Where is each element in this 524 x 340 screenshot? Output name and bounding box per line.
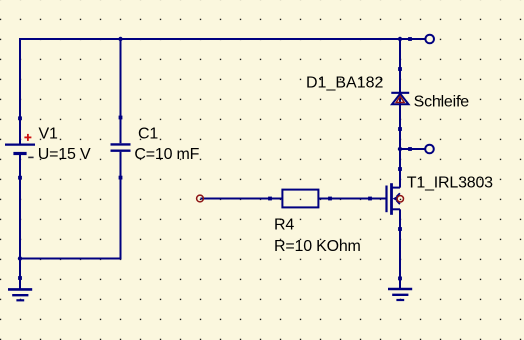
wire port stub middle: [400, 148, 426, 150]
svg-text:C=10 mF: C=10 mF: [134, 146, 199, 163]
node junction top C1: [118, 37, 122, 41]
svg-text:R=10 KOhm: R=10 KOhm: [274, 238, 361, 255]
wire C1 column lower: [120, 152, 122, 259]
wire right column lower: [399, 209, 401, 288]
ground right: [388, 277, 412, 301]
svg-text:Schleife: Schleife: [414, 94, 470, 111]
wire bottom rail: [19, 258, 122, 260]
wire R4 to gate: [319, 198, 387, 200]
node open terminal R4 left: [197, 195, 204, 202]
ground left: [8, 276, 32, 300]
transistor T1 MOSFET: [368, 167, 403, 231]
svg-text:V1: V1: [39, 125, 58, 142]
battery V1: [5, 116, 35, 179]
wire right column upper: [399, 38, 401, 188]
wire top rail: [19, 38, 401, 40]
wire port stub top: [400, 38, 426, 40]
port P1 top: [408, 35, 434, 44]
capacitor C1: [111, 116, 131, 180]
wire C1 column upper: [120, 38, 122, 143]
wire left column lower: [19, 155, 21, 289]
svg-text:R4: R4: [274, 217, 294, 234]
node junction bottom left: [18, 256, 22, 260]
node junction middle right: [398, 147, 402, 151]
wire R4 left: [201, 198, 283, 200]
svg-text:T1_IRL3803: T1_IRL3803: [407, 175, 493, 192]
port P2 middle: [408, 145, 434, 154]
diode D1_BA182: [391, 67, 409, 131]
node junction top right: [398, 37, 402, 41]
resistor R4: [268, 190, 332, 208]
svg-text:C1: C1: [138, 125, 158, 142]
wire left column upper: [19, 38, 21, 144]
svg-text:U=15 V: U=15 V: [38, 146, 91, 163]
svg-text:D1_BA182: D1_BA182: [306, 75, 383, 92]
